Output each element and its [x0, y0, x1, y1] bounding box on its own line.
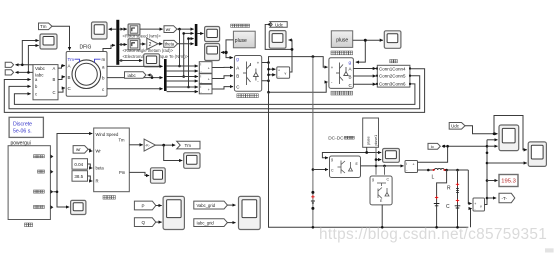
- from tag wr (wind): [73, 146, 88, 154]
- scope Te: [144, 54, 160, 67]
- current sensor block phase C: [199, 84, 212, 94]
- wire DC- machine converter to grid converter: [262, 81, 328, 93]
- label machine side controller: [231, 24, 235, 27]
- svg-text:pluse: pluse: [235, 38, 247, 44]
- scope pulses (scope3): [384, 31, 401, 49]
- svg-text:2: 2: [149, 42, 152, 48]
- svg-text:Q: Q: [142, 220, 146, 225]
- svg-text:R: R: [447, 186, 451, 192]
- goto tag Tm (bottom): [177, 141, 200, 149]
- wire pluse2 to scope3 and grid converter g: [353, 39, 383, 41]
- scope B (stacked bottom, flipped): [205, 44, 220, 61]
- block powergui: [9, 117, 43, 137]
- wire vm2 i output to Io tag and right bus: [418, 146, 448, 162]
- svg-text:-K-: -K-: [145, 144, 151, 148]
- block IGBT2 (battery side switch): [370, 176, 392, 205]
- svg-text:Tm: Tm: [40, 24, 47, 29]
- scope big 2: [528, 142, 546, 167]
- svg-text:Tm: Tm: [119, 138, 126, 143]
- wire IGBT2 E to bottom rail: [381, 205, 383, 227]
- block grid side controller pluse: [331, 31, 352, 48]
- from tag Q: [134, 218, 155, 227]
- block wind source: [8, 146, 50, 220]
- from tag Vabc_grid: [194, 201, 228, 209]
- svg-text:DFIG: DFIG: [80, 45, 92, 51]
- svg-text:v: v: [480, 205, 482, 209]
- svg-text:Udc: Udc: [451, 124, 460, 129]
- svg-text:A: A: [68, 64, 71, 69]
- svg-text:pluse: pluse: [367, 136, 371, 145]
- svg-text:wr: wr: [166, 27, 171, 32]
- wires rotor bar to current sensors: [167, 65, 198, 67]
- wire base wind to turbine: [53, 134, 92, 192]
- wire DFIG a to rotor bar: [107, 65, 163, 67]
- wire Tm tag to DFIG Tm input: [52, 26, 70, 50]
- svg-text:L: L: [432, 175, 435, 181]
- svg-text:+: +: [208, 77, 210, 81]
- block unit conversion 2: [128, 39, 140, 50]
- wire DFIG b to rotor bar: [107, 77, 163, 79]
- goto tag Tm (top left): [39, 23, 53, 30]
- scope A (stacked top): [205, 27, 220, 42]
- scope Udc (scope4, flipped): [269, 31, 286, 49]
- riser wm down: [179, 29, 181, 66]
- goto tag theta: [164, 40, 178, 47]
- svg-text:<Rotor speed (wm)>: <Rotor speed (wm)>: [123, 34, 162, 39]
- svg-text:m: m: [102, 57, 106, 62]
- scope PQ (scope7): [163, 196, 184, 229]
- svg-text:B: B: [68, 75, 71, 80]
- svg-text:v: v: [285, 72, 287, 76]
- wire ctrl out2 down to IGBT2 and scope9 in2: [375, 147, 377, 175]
- svg-text:beta: beta: [96, 166, 105, 171]
- svg-text:Vabc: Vabc: [35, 66, 46, 71]
- svg-text:pluse1: pluse1: [374, 135, 378, 146]
- wire bus out 1 to rad2rpm block1: [119, 28, 127, 30]
- gain 2: [147, 38, 158, 49]
- staircase wire to left capacitor branch: [437, 170, 447, 227]
- scope Tm (scope5): [184, 153, 200, 169]
- wire VI B to DFIG B: [58, 77, 65, 80]
- label machine side converter: [237, 94, 241, 98]
- wire DFIG m to bus selector and scope2: [103, 45, 115, 51]
- wire Iabc out to tag and scope1: [16, 71, 34, 73]
- from tag P: [134, 201, 155, 210]
- wires grid converter to grid block: [353, 68, 376, 70]
- wires DC link to voltage measurement: [269, 68, 276, 70]
- block grid (Conn subsystem): [377, 65, 410, 87]
- inductor L: [435, 168, 445, 170]
- svg-text:A: A: [349, 66, 352, 71]
- label grid side controller: [331, 51, 335, 55]
- wire three-phase loop line 3 (grid Conn6 to VI c): [14, 84, 415, 105]
- block unit conversion 1: [128, 24, 140, 35]
- wire bus out 3 to Te scope: [119, 60, 142, 62]
- svg-text:B: B: [53, 77, 56, 82]
- bus selector 1: [116, 20, 119, 65]
- gain -K-: [129, 144, 142, 146]
- svg-text:Io: Io: [431, 145, 434, 149]
- goto tag iabc (flipped): [125, 72, 147, 78]
- wire Vabc out to tag and scope1: [16, 64, 34, 66]
- svg-text:Conn2Conn5: Conn2Conn5: [379, 74, 406, 79]
- svg-text:g: g: [372, 178, 374, 182]
- scope rotor m (scope2, flipped): [92, 22, 108, 39]
- wire load line with inductor: [418, 169, 433, 171]
- svg-text:-T-: -T-: [502, 196, 508, 201]
- svg-text:+: +: [278, 68, 280, 72]
- block load voltage measurement vm3: [473, 198, 485, 211]
- wire three-phase loop line 2 (grid Conn5 to VI b): [9, 76, 420, 109]
- wire vdc measurement riser: [290, 49, 292, 72]
- svg-text:C: C: [53, 90, 56, 95]
- svg-text:Pm: Pm: [119, 170, 126, 175]
- svg-text:C: C: [446, 204, 450, 210]
- wire DFIG c to rotor bar: [107, 88, 163, 90]
- block machine side controller pluse: [233, 31, 255, 48]
- current sensor block phase A: [199, 62, 212, 73]
- svg-text:5e-06 s.: 5e-06 s.: [13, 129, 32, 135]
- right bus stubs: [486, 145, 489, 148]
- block three-phase V-I measurement (Vabc Iabc): [33, 65, 58, 100]
- scope grid Vabc Iabc (scope8): [239, 196, 261, 229]
- wire boost E to measurement vm2: [361, 165, 404, 167]
- svg-text:P: P: [142, 204, 145, 209]
- svg-text:https://blog.csdn.net/c8575935: https://blog.csdn.net/c85759351: [319, 226, 547, 243]
- mux rotor currents: [164, 59, 167, 91]
- svg-text:c: c: [35, 91, 37, 96]
- wire vm3 out to right bus: [485, 140, 488, 205]
- label grid side converter: [331, 91, 335, 95]
- svg-text:Wind Speed: Wind Speed: [96, 132, 119, 137]
- wire VI C to DFIG C: [58, 88, 65, 92]
- wire Pm to scope6: [129, 172, 149, 175]
- from tag Io: [428, 143, 440, 149]
- wire taps down to IGBT2 top ports: [384, 166, 386, 175]
- wire DC+ riser to boost C input: [313, 169, 328, 171]
- wires sensors to machine converter A B C: [212, 66, 233, 68]
- svg-text:DC-DC: DC-DC: [328, 135, 344, 141]
- svg-text:+: +: [413, 162, 415, 166]
- svg-text:Tm: Tm: [185, 143, 192, 148]
- constant 38.5: [72, 171, 88, 182]
- svg-text:Udc: Udc: [275, 22, 284, 27]
- wire gain to Tm goto and scope5: [155, 144, 175, 146]
- block current measurement vm2: [405, 161, 418, 173]
- goto tag Vabc (left edge): [5, 62, 13, 67]
- scope Pm (scope6): [151, 168, 166, 183]
- svg-text:A: A: [236, 65, 239, 70]
- svg-text:+: +: [208, 88, 210, 92]
- riser DC+ down to DC-DC section: [312, 57, 314, 228]
- riser mux in3: [188, 39, 190, 87]
- from tag Udc (top): [270, 22, 287, 28]
- label grid: [390, 60, 394, 63]
- battery branch marks on DC riser: [311, 191, 314, 194]
- svg-text:iabc: iabc: [128, 73, 137, 78]
- wire bus out 2 to block2: [119, 44, 127, 46]
- wire Udc tag loop to scope4: [267, 23, 270, 25]
- goto tag -T-: [499, 193, 515, 202]
- scope DC-DC (scope9): [383, 149, 400, 163]
- display 195.3: [499, 175, 518, 187]
- block machine side converter: [234, 56, 261, 92]
- block DC voltage measurement: [277, 67, 290, 78]
- svg-text:Conn3Conn6: Conn3Conn6: [379, 82, 406, 87]
- svg-text:+: +: [208, 67, 210, 71]
- svg-text:Discrete: Discrete: [13, 122, 32, 128]
- svg-text:38.5: 38.5: [74, 174, 83, 179]
- current sensor block phase B: [199, 74, 212, 84]
- svg-text:195.3: 195.3: [501, 179, 516, 185]
- wire DC+ machine converter to grid converter: [262, 57, 328, 68]
- from tag Udc (bottom right): [449, 123, 465, 130]
- scope big 1: [499, 125, 519, 151]
- from tag Iabc_grid: [194, 219, 228, 227]
- wire three-phase loop line 1 (grid Conn4 to VI a): [4, 69, 424, 113]
- svg-text:wr: wr: [76, 147, 81, 152]
- wire ctrl out1 to boost g and scope9: [322, 147, 366, 158]
- resistor capacitor branch right: [457, 170, 459, 227]
- goto tag wr: [164, 26, 177, 33]
- svg-text:Iabc_grid: Iabc_grid: [197, 220, 215, 225]
- wire gain2 to theta tag and mux in4: [158, 43, 162, 45]
- block wind turbine: [94, 128, 130, 192]
- block DFIG wound rotor induction machine: [66, 52, 107, 97]
- constant 0.04: [72, 159, 88, 170]
- wire Udc2 to big scope1 in1: [465, 126, 498, 134]
- loop from scope1 top to scope2 in1: [494, 116, 527, 150]
- capacitor marks left branch: [435, 196, 438, 199]
- block DC-DC controller pluse/pluse1: [363, 118, 379, 147]
- goto tag Iabc (left edge): [5, 70, 13, 75]
- svg-text:B: B: [236, 74, 239, 79]
- svg-text:+: +: [474, 202, 476, 206]
- svg-text:A: A: [53, 66, 56, 71]
- svg-text:theta: theta: [165, 42, 175, 47]
- wire DC- rail down to chopper bottom rail: [269, 92, 469, 227]
- wire VI A to DFIG A: [58, 66, 65, 69]
- svg-text:Conn1Conn4: Conn1Conn4: [379, 67, 406, 72]
- mux scope A: [195, 24, 198, 46]
- wire block1 to wr tag and mux: [140, 28, 163, 30]
- block boost chopper IGBT: [330, 156, 361, 178]
- svg-text:Wr: Wr: [96, 149, 102, 154]
- svg-text:Tm: Tm: [68, 57, 75, 62]
- riser mux in2: [183, 33, 185, 76]
- port pads grid block: [376, 68, 411, 85]
- scope Vabc/Iabc (scope1): [40, 34, 57, 49]
- block grid side converter (mirrored): [329, 58, 354, 89]
- svg-text:R: R: [96, 179, 99, 184]
- svg-text:Vabc_grid: Vabc_grid: [197, 203, 216, 208]
- svg-text:pluse: pluse: [336, 38, 348, 44]
- svg-text:B: B: [349, 74, 352, 79]
- wire load end to vm3: [468, 170, 471, 204]
- scope wind (scope10): [71, 200, 86, 214]
- wire pluse to scopeB and converter g: [226, 40, 233, 58]
- svg-text:g: g: [331, 158, 333, 162]
- svg-text:0.04: 0.04: [74, 162, 83, 167]
